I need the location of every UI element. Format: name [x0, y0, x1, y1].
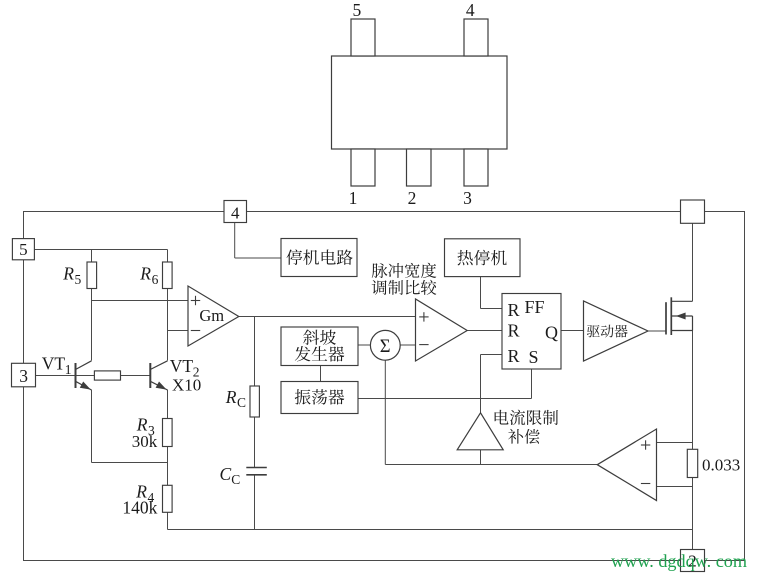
- PWM comparator: [416, 299, 468, 361]
- wire MOSFET source down to sense resistor: [692, 331, 694, 450]
- wire sense amp + input: [657, 442, 693, 444]
- oscillator box 振荡器: [281, 382, 358, 414]
- svg-text:C: C: [220, 464, 232, 484]
- svg-text:R: R: [508, 346, 520, 366]
- wire pin3 to VT1 base: [35, 375, 76, 377]
- svg-text:FF: FF: [525, 297, 545, 317]
- IC boundary wire: [24, 212, 745, 561]
- shutdown circuit box 停机电路: [281, 239, 357, 277]
- wire R6 bottom to VT2 collector: [167, 289, 169, 361]
- svg-text:R: R: [508, 321, 520, 341]
- wire RC to CC: [254, 417, 256, 468]
- op-amp Gm: [188, 286, 239, 346]
- capacitor CC: [220, 464, 267, 487]
- current limit compensation amp 电流限制补偿: [457, 410, 558, 450]
- svg-text:R: R: [225, 387, 237, 407]
- package pin 2: [407, 149, 432, 208]
- ground bus wire: [168, 529, 693, 531]
- svg-text:Q: Q: [545, 323, 558, 343]
- wire ramp box to oscillator: [320, 366, 322, 382]
- wire MOSFET drain to top pin: [692, 223, 694, 301]
- flip-flop FF box: [502, 294, 561, 370]
- wire R6 top lead: [167, 250, 169, 263]
- svg-text:4: 4: [466, 0, 475, 20]
- package pin 5: [351, 0, 375, 56]
- svg-text:0.033: 0.033: [702, 456, 740, 475]
- svg-text:Gm: Gm: [199, 306, 224, 325]
- pin box 2 (bottom right): [681, 550, 705, 572]
- transistor VT2 X10: [150, 356, 201, 395]
- svg-text:30k: 30k: [132, 432, 158, 451]
- IC package body: [332, 56, 508, 149]
- svg-text:X10: X10: [172, 375, 201, 394]
- wire driver to MOSFET gate: [648, 330, 666, 332]
- wire summer down to sense amp output: [384, 360, 386, 465]
- wire Gm output to PWM comparator: [239, 316, 416, 318]
- svg-text:C: C: [237, 395, 246, 410]
- wire VT2 emitter to R3: [167, 390, 169, 419]
- wire CC to bus: [254, 475, 256, 530]
- transistor VT1: [42, 353, 92, 390]
- label PWM comparator 脉冲宽度调制比较: [372, 263, 437, 295]
- svg-text:R: R: [62, 263, 74, 283]
- thermal shutdown box 热停机: [445, 239, 521, 277]
- wire Gm noninverting input: [92, 300, 189, 302]
- resistor R3 30k: [132, 415, 172, 451]
- svg-text:VT: VT: [42, 353, 66, 373]
- sense resistor 0.033: [687, 449, 740, 477]
- pin box 5: [12, 239, 34, 260]
- wire Gm inverting input: [168, 330, 189, 332]
- package pin 1: [349, 149, 375, 208]
- wire base resistor to VT2 base: [121, 375, 151, 377]
- resistor R6: [139, 262, 172, 289]
- wire FF Q output to driver: [561, 330, 584, 332]
- wire thermal-shutdown to FF R1: [480, 276, 482, 309]
- svg-text:C: C: [231, 472, 240, 487]
- wire summer to PWM inverting input: [400, 344, 416, 346]
- wire oscillator to FF S input: [358, 398, 532, 400]
- wire current-limit amp input: [480, 450, 482, 465]
- svg-text:1: 1: [349, 188, 358, 208]
- MOSFET power switch: [666, 297, 693, 335]
- wire R4 to ground bus: [167, 512, 169, 529]
- wire tee down to RC: [254, 317, 256, 387]
- wire ramp box to summer: [358, 344, 371, 346]
- pin box drain (top right): [681, 200, 705, 223]
- wire sense amp - input: [657, 486, 693, 488]
- wire VT1 emitter down: [91, 390, 93, 463]
- wire VT1 base to base resistor: [76, 375, 95, 377]
- summer node Σ: [370, 330, 400, 360]
- svg-text:Σ: Σ: [380, 337, 391, 357]
- wire pin5 to R5/R6 top rail: [35, 249, 168, 251]
- svg-text:5: 5: [353, 0, 362, 20]
- resistor R4 140k: [122, 481, 172, 517]
- wire PWM comparator output to FF R2: [467, 330, 502, 332]
- svg-text:R: R: [508, 300, 520, 320]
- wire R5 bottom to VT1 collector: [91, 289, 93, 361]
- resistor RC: [225, 386, 260, 417]
- wire sense amp output to summer: [385, 464, 597, 466]
- pin box 3: [12, 363, 36, 387]
- svg-text:4: 4: [231, 204, 240, 223]
- svg-text:140k: 140k: [122, 498, 157, 518]
- ramp generator box 斜坡发生器: [281, 327, 358, 366]
- driver amp 驱动器: [584, 301, 649, 361]
- svg-text:1: 1: [65, 362, 72, 377]
- wire sense resistor to bottom pin 2: [692, 478, 694, 550]
- wire pin4 to shutdown box: [235, 257, 281, 259]
- base resistor between VT1 and VT2: [94, 371, 120, 380]
- wire R3 to R4: [167, 447, 169, 486]
- svg-text:3: 3: [463, 188, 472, 208]
- package pin 4: [464, 0, 488, 56]
- package pin 3: [463, 149, 488, 208]
- svg-text:6: 6: [152, 272, 159, 287]
- wire current-limit amp to FF R3: [480, 355, 482, 413]
- wire VT1 emitter to R3/R4 node: [92, 462, 168, 464]
- wire R5 top lead: [91, 250, 93, 263]
- svg-text:5: 5: [75, 272, 82, 287]
- svg-text:S: S: [529, 347, 539, 367]
- resistor R5: [62, 262, 96, 289]
- svg-text:2: 2: [408, 188, 417, 208]
- svg-text:R: R: [139, 263, 151, 283]
- svg-text:5: 5: [19, 240, 28, 259]
- pin box 4: [224, 201, 247, 223]
- svg-text:VT: VT: [170, 356, 194, 376]
- current sense comparator: [597, 429, 656, 501]
- svg-text:www. dgdqw. com: www. dgdqw. com: [611, 551, 747, 571]
- wire pin4 down: [234, 223, 236, 259]
- svg-text:3: 3: [19, 366, 28, 386]
